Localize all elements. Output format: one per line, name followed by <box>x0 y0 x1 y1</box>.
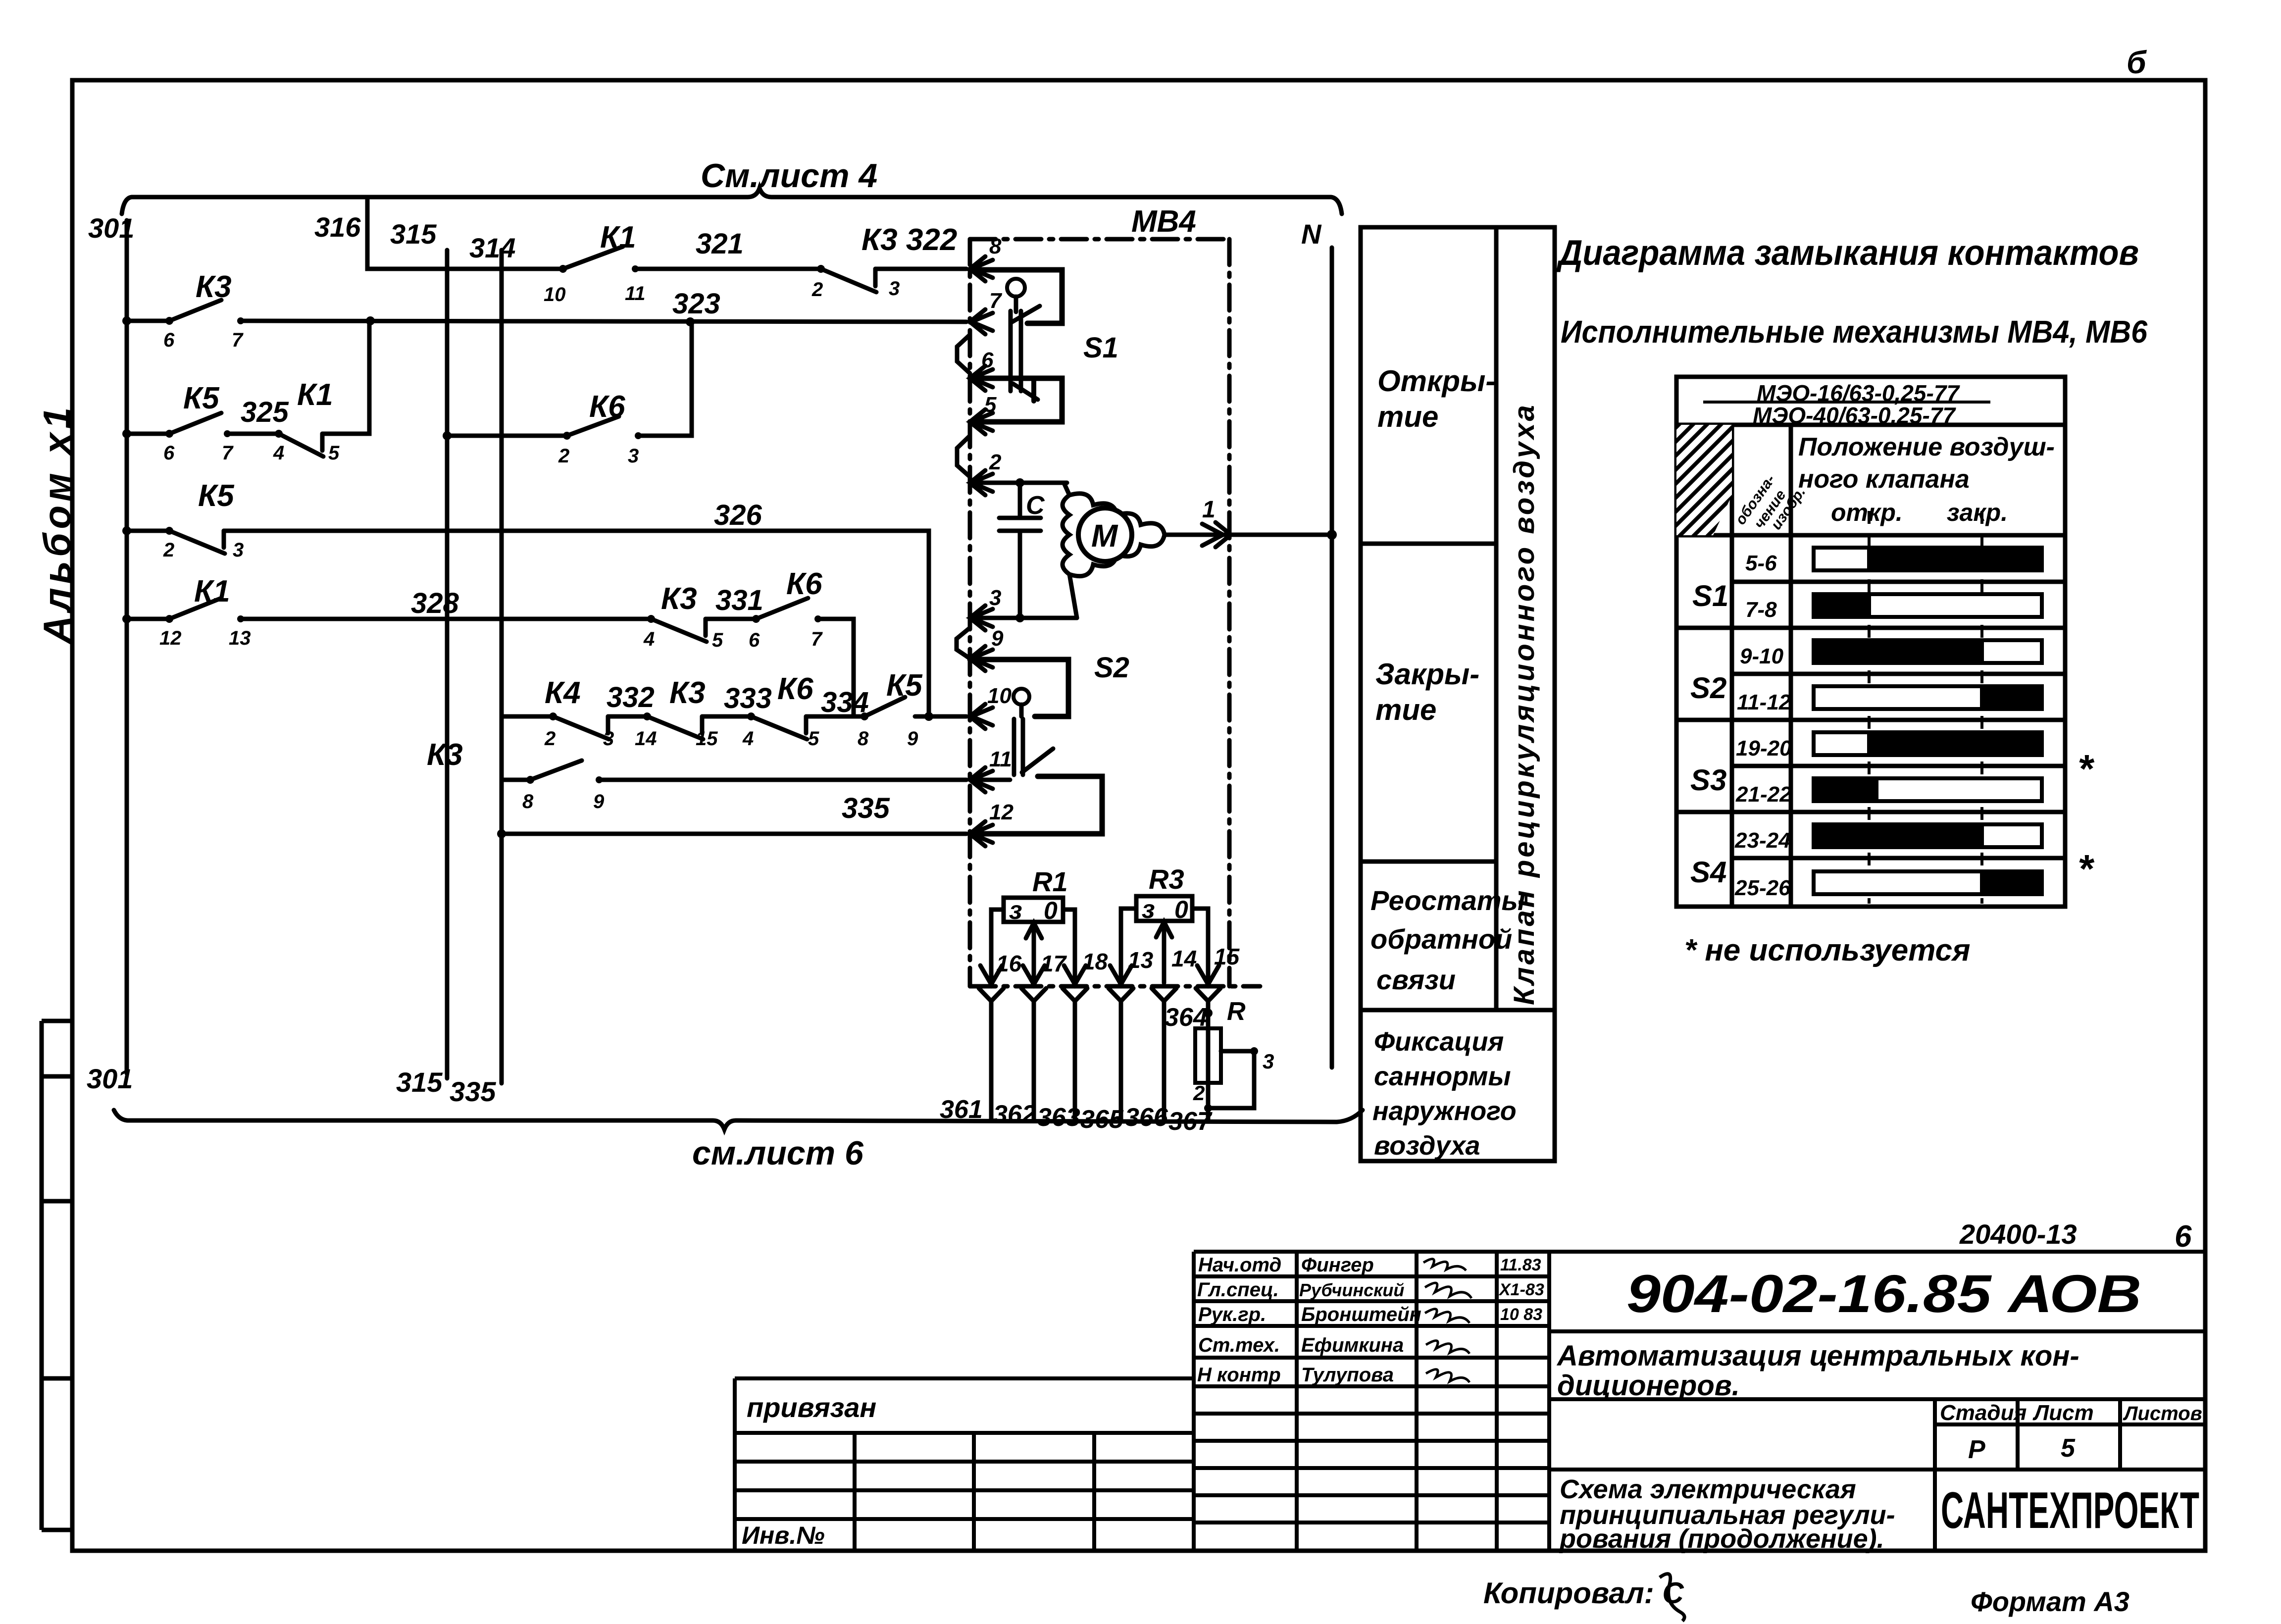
svg-text:Копировал: С: Копировал: С <box>1483 1576 1684 1610</box>
svg-text:15: 15 <box>696 728 718 750</box>
svg-text:301: 301 <box>88 212 134 244</box>
svg-text:3: 3 <box>603 728 614 750</box>
svg-text:Рук.гр.: Рук.гр. <box>1198 1304 1266 1325</box>
svg-text:3: 3 <box>1263 1050 1274 1073</box>
svg-text:Лист: Лист <box>2032 1401 2094 1425</box>
svg-text:Бронштейн: Бронштейн <box>1301 1304 1421 1325</box>
svg-text:5-6: 5-6 <box>1745 551 1777 575</box>
svg-text:С: С <box>1026 491 1045 520</box>
svg-text:2: 2 <box>989 450 1002 474</box>
svg-text:См.лист 4: См.лист 4 <box>701 157 877 195</box>
svg-text:воздуха: воздуха <box>1374 1131 1480 1161</box>
svg-text:К3: К3 <box>427 738 463 772</box>
svg-text:14: 14 <box>635 728 657 750</box>
svg-text:5: 5 <box>328 442 340 464</box>
svg-text:7-8: 7-8 <box>1745 598 1777 622</box>
svg-text:3: 3 <box>889 278 900 300</box>
svg-text:301: 301 <box>87 1063 133 1094</box>
svg-text:904-02-16.85 АОВ: 904-02-16.85 АОВ <box>1626 1264 2141 1323</box>
svg-text:К3: К3 <box>661 582 697 616</box>
svg-text:15: 15 <box>1214 944 1240 969</box>
svg-text:К3: К3 <box>196 270 232 304</box>
svg-text:7: 7 <box>811 628 823 650</box>
svg-text:Р: Р <box>1968 1435 1985 1464</box>
svg-text:10: 10 <box>987 684 1012 708</box>
svg-text:Ст.тех.: Ст.тех. <box>1198 1334 1280 1356</box>
svg-text:7: 7 <box>989 289 1003 313</box>
svg-text:К5: К5 <box>886 668 923 703</box>
svg-text:0: 0 <box>1044 897 1058 924</box>
svg-text:19-20: 19-20 <box>1736 736 1792 761</box>
svg-text:Тулупова: Тулупова <box>1301 1364 1394 1386</box>
svg-text:S4: S4 <box>1690 856 1726 889</box>
svg-text:МВ4: МВ4 <box>1131 204 1196 239</box>
svg-text:333: 333 <box>724 682 772 714</box>
svg-text:323: 323 <box>672 288 720 320</box>
svg-text:связи: связи <box>1376 964 1456 995</box>
svg-text:Альбом х1: Альбом х1 <box>35 404 79 645</box>
svg-text:М: М <box>1091 518 1118 554</box>
svg-text:Фиксация: Фиксация <box>1374 1027 1504 1057</box>
svg-text:17: 17 <box>1041 951 1067 976</box>
svg-text:315: 315 <box>390 218 437 250</box>
svg-text:К6: К6 <box>786 567 822 601</box>
svg-text:R: R <box>1227 997 1246 1026</box>
svg-text:привязан: привязан <box>747 1392 876 1423</box>
svg-text:N: N <box>1301 218 1322 250</box>
svg-text:21-22: 21-22 <box>1735 782 1792 807</box>
svg-text:Схема электрическая: Схема электрическая <box>1560 1474 1856 1504</box>
svg-text:Положение воздуш-: Положение воздуш- <box>1798 433 2055 461</box>
svg-text:8: 8 <box>522 791 534 812</box>
svg-text:3: 3 <box>628 445 639 467</box>
svg-text:9: 9 <box>593 791 605 812</box>
svg-text:9: 9 <box>907 728 918 750</box>
svg-text:6: 6 <box>163 442 175 464</box>
svg-text:S1: S1 <box>1692 579 1728 612</box>
svg-text:тие: тие <box>1375 693 1436 726</box>
svg-text:Х1-83: Х1-83 <box>1498 1280 1544 1299</box>
svg-text:Рубчинский: Рубчинский <box>1299 1280 1404 1300</box>
svg-text:314: 314 <box>469 232 515 263</box>
svg-text:335: 335 <box>842 792 890 824</box>
svg-text:обратной: обратной <box>1370 923 1512 955</box>
svg-text:4: 4 <box>742 728 754 750</box>
svg-text:К1: К1 <box>600 220 636 254</box>
svg-text:* не используется: * не используется <box>1684 933 1971 967</box>
svg-text:S2: S2 <box>1690 671 1726 705</box>
svg-text:9-10: 9-10 <box>1740 644 1784 668</box>
svg-text:К6: К6 <box>589 390 625 424</box>
svg-text:2: 2 <box>544 728 556 750</box>
svg-text:361: 361 <box>940 1095 983 1124</box>
svg-text:*: * <box>2078 847 2095 891</box>
svg-text:6: 6 <box>981 348 994 372</box>
svg-text:Реостаты: Реостаты <box>1370 885 1525 916</box>
svg-text:К3 322: К3 322 <box>862 223 957 257</box>
svg-text:Исполнительные механизмы МВ4,: Исполнительные механизмы МВ4, МВ6 <box>1561 314 2147 350</box>
svg-text:К6: К6 <box>777 672 813 706</box>
svg-text:з: з <box>1009 896 1022 925</box>
svg-text:25-26: 25-26 <box>1734 876 1791 900</box>
svg-text:362: 362 <box>993 1100 1036 1129</box>
svg-text:335: 335 <box>450 1076 496 1107</box>
svg-text:20400-13: 20400-13 <box>1959 1218 2077 1250</box>
svg-text:10 83: 10 83 <box>1500 1305 1542 1324</box>
svg-text:наружного: наружного <box>1372 1096 1517 1126</box>
svg-text:2: 2 <box>1193 1081 1205 1105</box>
svg-text:Ефимкина: Ефимкина <box>1301 1334 1404 1356</box>
svg-text:18: 18 <box>1082 949 1108 974</box>
svg-text:Стадия: Стадия <box>1940 1401 2027 1425</box>
svg-text:закр.: закр. <box>1947 499 2008 526</box>
svg-text:0: 0 <box>1174 896 1188 923</box>
svg-text:325: 325 <box>241 396 289 428</box>
svg-text:364: 364 <box>1165 1003 1208 1032</box>
svg-text:328: 328 <box>411 587 459 619</box>
svg-text:САНТЕХПРОЕКТ: САНТЕХПРОЕКТ <box>1941 1482 2199 1539</box>
svg-text:316: 316 <box>314 211 361 243</box>
svg-text:откр.: откр. <box>1831 499 1903 526</box>
svg-text:4: 4 <box>273 442 284 464</box>
svg-text:11: 11 <box>989 747 1012 771</box>
svg-text:3: 3 <box>233 539 244 561</box>
svg-text:диционеров.: диционеров. <box>1557 1370 1740 1402</box>
svg-text:2: 2 <box>811 279 823 301</box>
svg-text:тие: тие <box>1377 400 1438 433</box>
svg-text:363: 363 <box>1037 1103 1080 1132</box>
svg-text:S3: S3 <box>1690 763 1726 797</box>
svg-text:рования (продолжение).: рования (продолжение). <box>1559 1524 1884 1554</box>
svg-text:К1: К1 <box>194 574 230 609</box>
svg-text:8: 8 <box>858 728 869 750</box>
svg-text:11-12: 11-12 <box>1737 690 1791 714</box>
svg-text:R1: R1 <box>1032 866 1068 897</box>
svg-text:2: 2 <box>558 445 569 467</box>
svg-text:Гл.спец.: Гл.спец. <box>1197 1279 1279 1301</box>
svg-text:Фингер: Фингер <box>1301 1254 1374 1276</box>
svg-text:К1: К1 <box>297 378 333 412</box>
svg-text:Диаграмма замыкания контактов: Диаграмма замыкания контактов <box>1556 233 2139 273</box>
svg-text:315: 315 <box>396 1066 443 1098</box>
svg-text:б: б <box>2127 45 2147 80</box>
svg-text:367: 367 <box>1168 1107 1213 1136</box>
svg-text:16: 16 <box>996 951 1022 976</box>
svg-text:5: 5 <box>2061 1434 2076 1463</box>
svg-text:12: 12 <box>989 800 1014 824</box>
svg-text:ного клапана: ного клапана <box>1798 465 1970 494</box>
svg-text:4: 4 <box>643 628 655 650</box>
svg-text:Закры-: Закры- <box>1375 658 1479 691</box>
svg-text:365: 365 <box>1080 1105 1124 1134</box>
svg-text:К4: К4 <box>545 676 581 710</box>
svg-text:2: 2 <box>163 539 174 561</box>
svg-text:13: 13 <box>229 627 251 649</box>
svg-text:S1: S1 <box>1083 332 1118 364</box>
svg-text:Н контр: Н контр <box>1197 1364 1281 1386</box>
svg-text:11: 11 <box>625 283 646 304</box>
svg-text:23-24: 23-24 <box>1734 828 1791 853</box>
svg-text:7: 7 <box>222 442 234 464</box>
svg-text:12: 12 <box>159 627 182 649</box>
svg-text:7: 7 <box>232 329 244 351</box>
svg-text:6: 6 <box>163 329 175 351</box>
svg-text:S2: S2 <box>1094 652 1129 684</box>
svg-text:6: 6 <box>749 629 760 651</box>
svg-text:МЭО-40/63-0,25-77: МЭО-40/63-0,25-77 <box>1753 403 1956 428</box>
svg-text:Клапан рециркуляционного возду: Клапан рециркуляционного воздуха <box>1508 403 1540 1005</box>
svg-text:5: 5 <box>808 728 819 750</box>
svg-text:366: 366 <box>1125 1103 1168 1132</box>
svg-text:Откры-: Откры- <box>1377 364 1495 398</box>
svg-text:Листов: Листов <box>2123 1403 2202 1424</box>
svg-text:6: 6 <box>2175 1219 2192 1254</box>
svg-text:13: 13 <box>1128 947 1154 973</box>
svg-text:10: 10 <box>544 284 566 305</box>
svg-text:см.лист 6: см.лист 6 <box>692 1134 864 1172</box>
svg-text:К5: К5 <box>183 381 220 415</box>
svg-text:Автоматизация центральных ко: Автоматизация центральных кон- <box>1556 1340 2079 1372</box>
svg-text:R3: R3 <box>1149 863 1184 895</box>
svg-text:саннормы: саннормы <box>1374 1062 1511 1091</box>
svg-text:8: 8 <box>989 234 1002 258</box>
svg-text:Инв.№: Инв.№ <box>742 1522 825 1549</box>
svg-text:з: з <box>1142 895 1155 924</box>
svg-text:К5: К5 <box>198 479 235 513</box>
svg-text:5: 5 <box>712 629 723 651</box>
svg-text:11.83: 11.83 <box>1500 1256 1541 1274</box>
svg-text:1: 1 <box>1202 497 1216 523</box>
svg-text:331: 331 <box>715 584 763 616</box>
svg-text:3: 3 <box>989 586 1001 610</box>
svg-text:14: 14 <box>1171 946 1197 971</box>
svg-text:321: 321 <box>696 228 744 260</box>
svg-text:*: * <box>2078 747 2095 791</box>
svg-text:9: 9 <box>991 626 1004 651</box>
svg-text:326: 326 <box>714 499 762 531</box>
svg-text:5: 5 <box>984 393 997 417</box>
svg-text:Формат А3: Формат А3 <box>1971 1586 2129 1617</box>
svg-text:Нач.отд: Нач.отд <box>1198 1254 1281 1276</box>
svg-text:332: 332 <box>607 681 655 713</box>
svg-text:К3: К3 <box>669 676 706 710</box>
svg-text:334: 334 <box>821 686 869 718</box>
